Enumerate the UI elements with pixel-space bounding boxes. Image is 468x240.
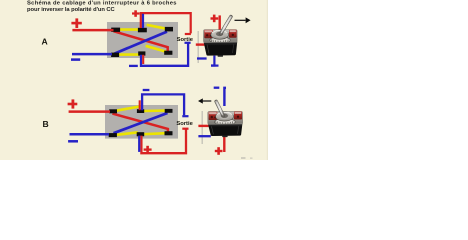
- Sortie label A: [177, 37, 194, 43]
- wire: blue lead below switch photo B: [198, 135, 210, 137]
- wire: blue cross S2 pin3-pin4: [114, 113, 168, 133]
- wire: red stub above S2 pin2: [139, 100, 141, 110]
- blue terminal cap Sortie- B: [182, 115, 188, 117]
- svg-text:Sortie: Sortie: [176, 121, 193, 127]
- wire: blue cross S1 pin3-pin4: [115, 32, 168, 54]
- wire: yellow jumper S2 pins 1-2: [116, 107, 140, 111]
- arrow left (lever direction B): [198, 98, 211, 103]
- wire: red stub below S1 pin5: [142, 55, 144, 64]
- wire: red lead top of switch A: [218, 15, 220, 30]
- label A: [42, 36, 48, 46]
- minus label output B: [143, 89, 150, 91]
- wire: red cross S2 pin1-pin6: [112, 114, 167, 132]
- svg-text:Sortie: Sortie: [177, 37, 194, 43]
- pin S1-3: [165, 27, 173, 32]
- minus label output A: [129, 65, 138, 67]
- pin S2-3: [165, 109, 173, 113]
- wire: yellow jumper S2 pins 2-3: [144, 109, 166, 112]
- wire: blue output from S1 pin5 to Sortie-: [141, 43, 188, 66]
- wire: yellow jumper S1 pins 5-6: [146, 46, 166, 52]
- pin S2-6: [165, 131, 173, 135]
- title: [27, 1, 177, 14]
- plus label input B: [68, 99, 78, 108]
- wire: yellow jumper S1 pins 4-5: [115, 53, 140, 56]
- wire: yellow jumper S1 pins 1-2: [115, 28, 140, 31]
- wire: blue output from S2 pin2 to Sortie-: [142, 94, 184, 115]
- red terminal cap Sortie+ B: [182, 128, 188, 130]
- svg-text:B: B: [43, 119, 49, 129]
- wire: red + input to S2 pin1: [69, 110, 110, 113]
- minus label input A: [71, 58, 80, 61]
- pin S2-5: [137, 132, 145, 136]
- wire: blue lead top of switch B: [224, 88, 226, 106]
- wire: red + input to S1 pin1: [72, 29, 113, 32]
- wire: yellow jumper S2 pins 5-6: [144, 133, 165, 134]
- separator line A: [197, 31, 199, 63]
- toggle switch photo A: [204, 17, 238, 57]
- wire: blue lead below switch photo A: [197, 57, 207, 59]
- plus label output B: [144, 146, 152, 154]
- wire: blue stub above S1 pin2: [142, 14, 144, 28]
- wire: blue stub under switch A: [211, 56, 219, 66]
- arrow right (lever direction A): [235, 17, 251, 23]
- wire: blue - input to S2 pin4: [70, 133, 110, 136]
- label B: [43, 119, 49, 129]
- plus label switch B: [215, 147, 223, 155]
- wire: yellow jumper S2 pins 4-5: [117, 132, 138, 135]
- wire: red output from S1 pin2 to Sortie+: [141, 13, 191, 33]
- svg-text:pour inverser la polarité d'un: pour inverser la polarité d'un CC: [27, 7, 116, 13]
- wire: red output from S2 pin5 to Sortie+: [141, 130, 186, 154]
- minus label input B: [68, 140, 78, 143]
- wire: red lead to switch photo A: [196, 43, 206, 45]
- plus label switch A: [211, 15, 219, 23]
- blue terminal cap Sortie- A: [185, 42, 191, 44]
- wire: blue stub below S2 pin5: [138, 136, 140, 152]
- switch S2 body (grey): [105, 105, 178, 139]
- edge specks bottom of panel: [241, 157, 253, 158]
- toggle switch photo B: [208, 102, 243, 138]
- separator line B: [201, 111, 203, 144]
- switch S1 body (grey): [107, 22, 178, 58]
- plus label output A: [132, 10, 140, 16]
- pin S1-6: [164, 51, 172, 55]
- pin S1-1: [111, 28, 120, 32]
- Sortie label B: [176, 121, 193, 127]
- pin S2-4: [109, 133, 117, 137]
- svg-text:A: A: [42, 36, 48, 46]
- svg-text:Schéma de cablage d'un interru: Schéma de cablage d'un interrupteur à 6 …: [27, 1, 177, 7]
- background panel: [0, 0, 268, 160]
- pin S1-4: [111, 53, 119, 57]
- wire: blue - input to S1 pin4: [72, 53, 112, 56]
- pin S1-5: [138, 51, 145, 55]
- red terminal cap Sortie+ A: [185, 33, 191, 35]
- wire: yellow jumper S1 pins 2-3: [147, 25, 168, 29]
- pin S2-2: [137, 109, 144, 113]
- pin S1-2: [138, 28, 147, 33]
- minus label switch B: [214, 87, 220, 89]
- pin S2-1: [109, 109, 117, 113]
- wire: red lead bottom of switch B: [223, 136, 225, 152]
- wire: red cross S1 pin1-pin6: [114, 31, 168, 51]
- plus label input A: [71, 18, 81, 28]
- wire: red lead to switch photo B: [198, 125, 208, 127]
